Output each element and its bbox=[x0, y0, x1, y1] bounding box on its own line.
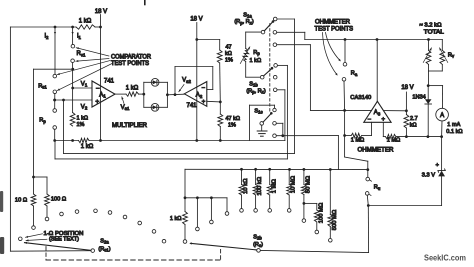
wire top bus y=39.5 bbox=[305, 39, 443, 41]
wire Rv branch top right bbox=[441, 40, 443, 51]
wire Ru top stub bbox=[367, 170, 369, 178]
test point Ru bottom bbox=[365, 192, 371, 196]
label multiplier bbox=[112, 123, 148, 129]
svg-text:0.1 kΩ: 0.1 kΩ bbox=[446, 129, 462, 135]
svg-text:100 MΩ: 100 MΩ bbox=[318, 202, 324, 223]
wire Rp bottom stub bbox=[246, 62, 261, 78]
svg-text:A: A bbox=[440, 113, 444, 119]
test point Rv1 top bbox=[71, 44, 75, 48]
resistor 1 kOhm (range) bbox=[170, 198, 188, 225]
node bus end / Ru junction bbox=[366, 168, 369, 171]
resistor 1 MOhm (left) bbox=[351, 133, 365, 143]
label 1-ohm position bbox=[44, 231, 84, 243]
contact S2b 1M bbox=[268, 209, 272, 213]
svg-text:V1: V1 bbox=[81, 81, 88, 87]
svg-text:Va1: Va1 bbox=[121, 105, 130, 111]
wire box top (to left column) bbox=[34, 68, 73, 70]
contact S2a 1-ohm position bbox=[19, 237, 23, 241]
wire S1a top wire bbox=[277, 18, 294, 20]
contact S2b (197) bbox=[196, 227, 200, 231]
wire 47k to A2+ node bbox=[219, 63, 222, 103]
diode D2 (bottom, in circle) bbox=[144, 103, 168, 111]
wire Ru bottom down bbox=[367, 195, 370, 207]
wire A2 noninverting input line bbox=[207, 100, 221, 103]
wire left col x=33.5 bbox=[33, 69, 35, 194]
switch S1b wiper bbox=[260, 67, 273, 79]
svg-text:A3: A3 bbox=[374, 110, 381, 116]
wire x=294.5 (S1a top to line A) bbox=[294, 19, 296, 153]
wire to ammeter top bbox=[428, 86, 442, 109]
wire x=185 riser bbox=[184, 169, 187, 199]
contact S2b (211) bbox=[210, 220, 214, 224]
svg-text:S1a​: S1a​ bbox=[243, 12, 252, 18]
contact S2b 10M bbox=[287, 209, 291, 213]
wire S1a-2 to x=310.4 bbox=[277, 45, 311, 111]
wire Rp top stub bbox=[246, 32, 262, 48]
svg-text:1%: 1% bbox=[228, 122, 236, 128]
wire output rail y=140.5 bbox=[55, 140, 285, 142]
wire 10ohm to contact bbox=[33, 206, 35, 226]
resistor 47 kOhm 1% (upper) bbox=[217, 45, 233, 64]
wire S1c wiper to ground bbox=[261, 125, 263, 131]
op-amp A3 (CA3140) bbox=[364, 101, 391, 123]
node V1 junction bbox=[71, 87, 74, 90]
label 1N34 bbox=[412, 94, 425, 100]
label S1c bbox=[254, 108, 262, 114]
wire S1c-1 jog bbox=[276, 123, 283, 135]
svg-text:CA3140: CA3140 bbox=[350, 95, 371, 101]
label S1a bbox=[234, 12, 254, 25]
node bus/18V junction bbox=[99, 26, 102, 29]
contact S2b (227) bbox=[225, 212, 229, 216]
switch S1a wiper bbox=[261, 20, 274, 34]
power +18V label (A3) bbox=[401, 85, 413, 91]
label Rp (left) bbox=[39, 118, 46, 124]
wire 47k lower to rail bbox=[219, 127, 221, 141]
test point Ra bottom bbox=[342, 78, 346, 82]
wire drop x=211.4 bbox=[210, 198, 212, 220]
power +18V label (left) bbox=[95, 9, 107, 15]
svg-text:50 MΩ: 50 MΩ bbox=[305, 175, 311, 193]
svg-text:18 V: 18 V bbox=[190, 17, 202, 23]
svg-text:1N34: 1N34 bbox=[412, 94, 425, 100]
ground bbox=[257, 131, 267, 136]
svg-text:TOTAL: TOTAL bbox=[424, 29, 444, 35]
op-amp A2 (741, mirrored) bbox=[184, 82, 207, 110]
svg-text:500 MΩ: 500 MΩ bbox=[332, 209, 338, 230]
contact S1c-2 bbox=[273, 134, 277, 138]
wire 1N34 top bbox=[427, 84, 430, 99]
svg-text:1%: 1% bbox=[77, 122, 85, 128]
svg-text:3.3 V: 3.3 V bbox=[422, 173, 435, 179]
wire 100ohm to contact bbox=[46, 206, 48, 217]
wire S1c line drop to range bus bbox=[337, 136, 339, 170]
scan artifact left blob 2 bbox=[0, 237, 4, 254]
svg-text:100 Ω: 100 Ω bbox=[51, 197, 66, 203]
contact S2b 100M bbox=[315, 230, 319, 234]
label Rv1 bbox=[77, 51, 86, 57]
wire A2 inverting input stub bbox=[207, 89, 213, 91]
wire A2 feedback top bbox=[175, 66, 213, 68]
wire A3 feedback down bbox=[344, 110, 346, 157]
svg-text:S2b​: S2b​ bbox=[253, 235, 262, 241]
svg-text:(SEE TEXT): (SEE TEXT) bbox=[49, 237, 79, 243]
contact S2a (100 ohm) bbox=[45, 217, 49, 221]
wire 2.7k to + line bbox=[405, 128, 407, 137]
wire S1c contacts to ohmmeter bbox=[276, 134, 338, 137]
resistor 50 MOhm bbox=[302, 169, 312, 218]
wire 18V stub down to bus bbox=[100, 15, 102, 28]
svg-text:S1b​: S1b​ bbox=[249, 81, 258, 87]
switch S2b wiper bbox=[189, 242, 260, 252]
svg-text:V2: V2 bbox=[81, 104, 88, 110]
label S2a bbox=[98, 238, 110, 252]
svg-text:−: − bbox=[96, 85, 100, 92]
label ohmmeter bbox=[358, 148, 395, 154]
wire A3 V+ stub bbox=[384, 110, 407, 112]
diode pair right rail bbox=[166, 82, 168, 107]
resistor 100 MOhm bbox=[304, 202, 324, 230]
svg-text:i1: i1 bbox=[77, 34, 81, 40]
svg-text:Rv1: Rv1 bbox=[77, 51, 86, 57]
wire A1 output bbox=[115, 93, 126, 95]
gang dashed line S2 bbox=[46, 247, 221, 260]
svg-text:Ra: Ra bbox=[351, 71, 358, 77]
label Ra bbox=[351, 71, 358, 77]
svg-text:−: − bbox=[368, 117, 372, 123]
wire drop x=197.4 bbox=[196, 198, 198, 227]
resistor 2.7 kOhm bbox=[404, 111, 418, 129]
gang dashed line S1 bbox=[269, 24, 271, 113]
svg-text:OHMMETER: OHMMETER bbox=[358, 148, 395, 154]
svg-text:OHMMETER: OHMMETER bbox=[315, 20, 351, 26]
resistor 47 kOhm 1% (lower) bbox=[218, 102, 240, 128]
wire Rv1 bottom down bbox=[72, 63, 74, 113]
wire zener return line bbox=[368, 205, 441, 207]
label 3.2 kOhm total bbox=[420, 23, 444, 36]
contact S2b 500M bbox=[329, 239, 333, 243]
svg-text:10 Ω: 10 Ω bbox=[15, 198, 27, 204]
wire down to S2b wire bbox=[367, 206, 369, 253]
svg-text:Rp​: Rp​ bbox=[253, 50, 260, 56]
contact S2b 100k bbox=[254, 209, 258, 213]
diode D1 (top, in circle) bbox=[144, 78, 168, 86]
resistor 1 kOhm (rail) bbox=[79, 138, 94, 150]
power +18V label (center) bbox=[190, 17, 202, 23]
svg-text:1 kΩ: 1 kΩ bbox=[250, 58, 262, 64]
svg-text:1 kΩ: 1 kΩ bbox=[79, 18, 92, 24]
contact S1a-2 bbox=[273, 43, 277, 47]
wire branch left bottom bbox=[428, 64, 430, 71]
contact S1b top bbox=[274, 64, 278, 68]
wire low range bus y=197.8 bbox=[185, 196, 227, 199]
wire 18V center down bbox=[195, 23, 198, 141]
svg-text:TEST POINTS: TEST POINTS bbox=[111, 61, 149, 67]
label Rs1 bbox=[38, 83, 47, 89]
svg-text:MULTIPLIER: MULTIPLIER bbox=[112, 123, 148, 129]
svg-text:TEST POINTS: TEST POINTS bbox=[315, 26, 354, 32]
svg-text:18 V: 18 V bbox=[401, 85, 413, 91]
wire + input line to zener rail bbox=[396, 135, 443, 138]
svg-text:10 MΩ: 10 MΩ bbox=[291, 175, 297, 193]
svg-text:1 MΩ: 1 MΩ bbox=[351, 138, 365, 144]
svg-text:1 kΩ: 1 kΩ bbox=[77, 116, 88, 122]
contact S1a-1 bbox=[273, 31, 277, 35]
switch S1c wiper bbox=[260, 112, 273, 125]
leader arrows to comparator test points bbox=[57, 47, 112, 90]
resistor 1 kOhm (top-left bus) bbox=[76, 18, 95, 29]
contact S1b-2 bbox=[273, 88, 277, 92]
contact S1b-1 (unused) bbox=[273, 75, 277, 79]
wire S1a-2 line to A3 bbox=[310, 109, 371, 112]
wire Rp lower down to rail bbox=[54, 129, 56, 140]
current arrow i2 bbox=[45, 32, 56, 40]
wire S1a-1 to top bus bbox=[277, 32, 305, 39]
svg-text:2.7: 2.7 bbox=[410, 116, 418, 122]
wire zener top lead bbox=[441, 137, 443, 171]
test point Rv1 bottom bbox=[71, 59, 75, 63]
wire S1c feed riser bbox=[250, 105, 275, 140]
label Va1 bbox=[121, 97, 130, 111]
current arrow i1 bbox=[72, 32, 82, 40]
rheostat Rv bbox=[439, 48, 455, 65]
label ohmmeter test points bbox=[315, 20, 354, 33]
wire S2b pivot to right bbox=[261, 250, 369, 252]
node box-top junction bbox=[71, 68, 74, 71]
leader arrows ohmmeter test points bbox=[323, 33, 341, 76]
node top bus junctions bbox=[344, 38, 430, 41]
label S1b bbox=[246, 81, 266, 94]
contact S2b 1k bbox=[183, 240, 187, 244]
wire to diode pair bbox=[139, 93, 146, 96]
wire 1k range to contact bbox=[184, 225, 186, 240]
svg-text:1 MΩ: 1 MΩ bbox=[272, 179, 278, 194]
wire 1N34 bottom bbox=[427, 104, 429, 137]
svg-text:COMPARATOR: COMPARATOR bbox=[111, 54, 152, 60]
svg-text:Ru: Ru bbox=[374, 185, 381, 191]
wire drop x=227 bbox=[226, 198, 228, 212]
scan artifact left blob 1 bbox=[0, 191, 3, 212]
svg-text:Va2: Va2 bbox=[182, 78, 191, 84]
label Ru bbox=[374, 185, 381, 191]
svg-text:10 kΩ: 10 kΩ bbox=[243, 178, 249, 194]
contact S2b 10k bbox=[240, 209, 244, 213]
resistor 10 Ohm bbox=[15, 194, 36, 206]
op-amp A1 (741) bbox=[92, 79, 115, 108]
test point Rs1 top bbox=[53, 74, 57, 78]
wire range bus y=169.3 bbox=[185, 168, 368, 170]
svg-text:1 kΩ: 1 kΩ bbox=[126, 86, 139, 92]
wire x=63.5 down to line A bbox=[63, 100, 65, 153]
wire branch join bbox=[429, 64, 443, 71]
svg-text:741: 741 bbox=[104, 79, 115, 85]
wire Ra bottom down bbox=[343, 81, 346, 110]
wire 18V bus top-left (y=27) bbox=[10, 26, 100, 28]
resistor 1 kOhm (A1 output) bbox=[126, 86, 139, 97]
resistor 500 MOhm bbox=[328, 170, 338, 239]
wire line A y=153.4 bbox=[64, 152, 295, 154]
contact S2a (10 ohm) bbox=[32, 226, 36, 230]
wire Rs1 bottom to V2 node bbox=[54, 94, 56, 109]
wire V1 line bbox=[73, 81, 92, 88]
svg-text:1 MΩ: 1 MΩ bbox=[387, 138, 401, 144]
wire 1M left to feedback node bbox=[343, 134, 351, 137]
wire bus to Ra test point bbox=[344, 40, 346, 63]
wire V2 line bbox=[53, 99, 92, 111]
scan artifact top tick bbox=[144, 0, 146, 5]
svg-text:47 kΩ: 47 kΩ bbox=[226, 116, 241, 122]
wire 100ohm branch bbox=[34, 177, 48, 194]
svg-text:SeekIC.com: SeekIC.com bbox=[424, 253, 466, 262]
node V2/x63.5 junction bbox=[62, 99, 65, 102]
svg-text:+: + bbox=[436, 163, 439, 169]
leader arrows 1-ohm bbox=[26, 234, 48, 242]
label S2b bbox=[253, 235, 263, 249]
resistor 1 MOhm (range) bbox=[267, 169, 277, 208]
test point Rs1 bottom bbox=[53, 90, 57, 94]
svg-text:47: 47 bbox=[226, 45, 232, 51]
svg-text:(Rc​): (Rc​) bbox=[253, 242, 263, 248]
wire i2 branch x=55 from bus bbox=[54, 26, 57, 75]
contact S1a top bbox=[273, 17, 277, 21]
diode pair left rail bbox=[143, 82, 145, 107]
svg-text:−: − bbox=[201, 86, 205, 92]
zener D3 3.3V bbox=[422, 163, 446, 179]
wire 18V line down x=100.5 bbox=[100, 27, 102, 141]
svg-text:+: + bbox=[202, 100, 206, 106]
svg-text:100 kΩ: 100 kΩ bbox=[257, 176, 263, 195]
svg-text:1 kΩ: 1 kΩ bbox=[81, 144, 94, 150]
wire 47k top lead bbox=[219, 40, 221, 51]
wire A2 feedback right riser bbox=[212, 67, 214, 90]
svg-text:Rs1​: Rs1​ bbox=[38, 83, 47, 89]
svg-text:(Rc1​): (Rc1​) bbox=[98, 246, 110, 252]
svg-text:(Rp​, Rx​): (Rp​, Rx​) bbox=[234, 19, 254, 25]
wire Va2 node line bbox=[166, 93, 184, 96]
resistor 10 kOhm bbox=[239, 169, 249, 208]
svg-text:≈ 3.2 kΩ: ≈ 3.2 kΩ bbox=[420, 23, 442, 29]
wire line B y=158.9 bbox=[55, 158, 287, 160]
wire S1b-2 to rail riser bbox=[277, 90, 285, 141]
wire left rail to S2a pivot bbox=[10, 250, 91, 253]
resistor 1 MOhm (right) bbox=[385, 134, 400, 143]
wire A2 feedback left riser bbox=[174, 67, 176, 95]
label ammeter rating bbox=[446, 122, 462, 135]
contact S1c top bbox=[273, 108, 276, 111]
svg-text:741: 741 bbox=[186, 103, 197, 109]
diode 1N34 bbox=[425, 99, 432, 104]
svg-text:1 kΩ: 1 kΩ bbox=[170, 216, 182, 222]
wire i1 branch x=72.6 from bus bbox=[71, 26, 74, 45]
switch S2a wiper bbox=[25, 242, 95, 253]
resistor 10 MOhm bbox=[287, 169, 297, 208]
svg-text:+: + bbox=[95, 98, 99, 105]
contacts S2a arc bbox=[60, 209, 166, 243]
wire feedback jog bbox=[345, 157, 368, 170]
node range bus taps bbox=[240, 168, 332, 171]
wire S1b top to line B bbox=[277, 65, 287, 158]
resistor 100 Ohm bbox=[45, 194, 67, 206]
svg-text:(Rp​, Rx​): (Rp​, Rx​) bbox=[246, 88, 266, 94]
wire left rail x=10.4 bbox=[9, 27, 11, 251]
node 10ohm branch junction bbox=[32, 176, 35, 179]
svg-text:i2: i2 bbox=[45, 34, 49, 40]
resistor 1 kOhm 1% (V2 leg) bbox=[70, 113, 88, 129]
adjust arrow (left resistor) bbox=[423, 48, 431, 63]
svg-text:S2a​: S2a​ bbox=[100, 238, 109, 244]
label CA3140 bbox=[350, 95, 371, 101]
wire A3 inverting input bbox=[362, 122, 372, 135]
svg-text:kΩ: kΩ bbox=[225, 51, 232, 57]
wire branch to 1N34 node bbox=[428, 71, 430, 86]
test point Ru top bbox=[366, 177, 372, 181]
contact S2b 50M bbox=[302, 219, 306, 223]
wire 18V A3 drop bbox=[405, 92, 408, 112]
svg-text:Rv​: Rv​ bbox=[448, 53, 455, 59]
resistor fixed (3.2k branch) bbox=[426, 50, 431, 64]
svg-text:Rp​: Rp​ bbox=[39, 118, 46, 124]
contact S1c-1 bbox=[273, 122, 277, 126]
test point Ra top bbox=[343, 63, 347, 67]
label comparator test points bbox=[111, 54, 152, 67]
wire zener bottom lead bbox=[441, 176, 443, 205]
watermark SeekIC.com bbox=[424, 253, 466, 262]
rheostat Rp 1 kOhm bbox=[240, 47, 261, 64]
test point Rp upper bbox=[53, 109, 57, 113]
label Va2 bbox=[179, 78, 192, 92]
wire x=55 rail to line B bbox=[54, 141, 56, 159]
svg-text:S1c​: S1c​ bbox=[254, 108, 262, 114]
svg-text:1 mA: 1 mA bbox=[447, 122, 460, 128]
svg-text:1%: 1% bbox=[225, 57, 233, 63]
test point Rp lower bbox=[53, 126, 57, 130]
node V2 left junction bbox=[53, 99, 56, 102]
wire A3 noninverting input bbox=[383, 122, 385, 136]
wire ammeter bottom bbox=[441, 121, 443, 137]
wire 18V to 47k bbox=[197, 39, 220, 41]
resistor 100 kOhm bbox=[253, 169, 263, 208]
wire Rv branch top left bbox=[428, 40, 430, 51]
svg-text:18 V: 18 V bbox=[95, 9, 107, 15]
meter M1 ammeter bbox=[436, 108, 449, 121]
node rail junctions bbox=[53, 139, 221, 142]
wire A3 output riser bbox=[376, 40, 378, 102]
svg-text:kΩ: kΩ bbox=[410, 122, 417, 128]
